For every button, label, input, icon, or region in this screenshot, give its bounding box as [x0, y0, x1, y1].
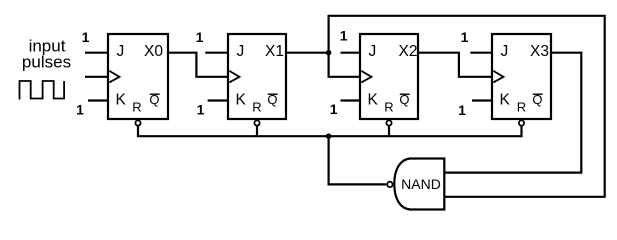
- wire K stub X2: [341, 99, 361, 101]
- svg-text:X2: X2: [399, 43, 418, 60]
- flip-flop X1: [228, 34, 286, 119]
- svg-text:K: K: [500, 92, 511, 109]
- NAND gate: [394, 159, 444, 210]
- svg-text:X3: X3: [530, 43, 549, 60]
- svg-text:X0: X0: [144, 43, 163, 60]
- wire junction down to X2 clock: [329, 53, 360, 77]
- svg-text:1: 1: [461, 29, 469, 45]
- svg-text:J: J: [237, 43, 245, 60]
- node X1 output junction: [326, 50, 332, 56]
- reset bubble of X3: [519, 120, 524, 125]
- svg-text:R: R: [132, 100, 141, 115]
- svg-text:1: 1: [82, 29, 90, 45]
- wire K stub X3: [472, 99, 492, 101]
- svg-text:1: 1: [340, 28, 348, 44]
- reset stub X2: [388, 126, 390, 136]
- svg-text:K: K: [236, 92, 247, 109]
- svg-text:NAND: NAND: [401, 176, 441, 192]
- svg-text:R: R: [252, 100, 261, 115]
- reset bubble of X0: [135, 120, 140, 125]
- reset bubble of X2: [386, 120, 391, 125]
- node reset junction: [326, 133, 332, 139]
- clock waveform: [20, 81, 65, 100]
- svg-text:J: J: [369, 43, 377, 60]
- wire J stub X3: [470, 52, 492, 54]
- svg-text:K: K: [116, 92, 127, 109]
- wire X0 output to X1 clock: [168, 53, 228, 77]
- wire X1 output to junction: [286, 52, 329, 54]
- svg-text:1: 1: [197, 102, 205, 118]
- svg-text:R: R: [517, 100, 526, 115]
- flip-flop X3: [492, 34, 551, 119]
- wire J stub X0: [85, 52, 108, 54]
- wire NAND output to reset line: [329, 136, 387, 184]
- reset stub X1: [256, 126, 258, 136]
- svg-text:J: J: [501, 43, 509, 60]
- svg-text:1: 1: [458, 102, 466, 118]
- svg-text:1: 1: [330, 101, 338, 117]
- reset bubble of X1: [254, 120, 259, 125]
- wire X2 output to X3 clock: [418, 53, 492, 77]
- svg-text:K: K: [368, 92, 379, 109]
- svg-text:J: J: [117, 43, 125, 60]
- flip-flop X0: [108, 34, 168, 119]
- wire X3 output to NAND top input: [444, 53, 581, 173]
- svg-text:1: 1: [196, 29, 204, 45]
- wire J stub X1: [205, 52, 228, 54]
- wire K stub X0: [88, 99, 108, 101]
- input pulses label: [22, 37, 71, 72]
- svg-text:pulses: pulses: [22, 53, 71, 72]
- svg-text:R: R: [384, 100, 393, 115]
- wire X1 junction to NAND bottom input (top feedback): [329, 16, 605, 197]
- reset line: [138, 126, 522, 136]
- svg-text:X1: X1: [265, 43, 284, 60]
- svg-text:1: 1: [76, 102, 84, 118]
- NAND output bubble: [387, 182, 392, 187]
- wire K stub X1: [208, 99, 228, 101]
- wire clock stub X0: [85, 76, 108, 78]
- wire J stub X2: [341, 52, 361, 54]
- flip-flop X2: [360, 34, 418, 119]
